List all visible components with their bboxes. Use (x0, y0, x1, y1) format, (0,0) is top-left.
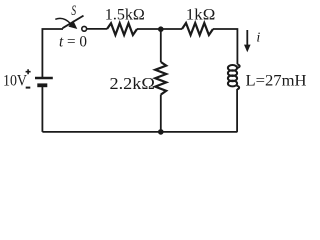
label + polarity (26, 69, 31, 74)
inductor L1 exit curve (237, 86, 240, 90)
inductor L1 loop 4 (228, 81, 237, 87)
label - polarity (26, 87, 31, 89)
switch S arrowhead (68, 20, 77, 29)
wire R1 to node A (137, 28, 161, 30)
battery V1 short plate (-) (37, 83, 47, 87)
node B junction dot (bottom) (158, 129, 164, 135)
current arrow i head (244, 45, 251, 53)
svg-text:2.2kΩ: 2.2kΩ (110, 74, 155, 93)
svg-text:1kΩ: 1kΩ (186, 6, 216, 23)
switch S motion arc (55, 18, 70, 23)
bottom rail wire (42, 131, 237, 133)
node A junction dot (158, 26, 164, 32)
resistor R2 1k zigzag (182, 23, 213, 35)
battery V1 long plate (+) (35, 77, 53, 79)
svg-text:S: S (71, 2, 76, 19)
svg-text:i: i (256, 30, 260, 45)
svg-text:L=27mH: L=27mH (246, 71, 307, 90)
wire R2 to top-right corner and right rail upper (213, 29, 237, 64)
svg-text:10V: 10V (3, 73, 27, 90)
wire right rail lower (236, 89, 238, 132)
wire left rail lower (41, 86, 43, 132)
resistor R1 1.5k zigzag (107, 23, 137, 35)
wire node A to R2 (161, 28, 182, 30)
wire top-left stub and left rail upper (42, 29, 63, 77)
wire contact to R1 (87, 28, 107, 30)
current arrow i shaft (246, 30, 248, 46)
wire node A down to R3 (160, 29, 162, 62)
inductor L1 loop 1 (228, 65, 237, 71)
switch S blade (63, 16, 84, 29)
switch S contact circle (82, 26, 87, 31)
svg-text:t = 0: t = 0 (59, 34, 87, 51)
inductor L1 entry curve (237, 64, 240, 68)
wire R3 to bottom rail (160, 95, 162, 132)
svg-text:1.5kΩ: 1.5kΩ (105, 6, 145, 23)
resistor R3 2.2k vertical zigzag (155, 62, 166, 95)
inductor L1 loop 3 (228, 75, 237, 81)
inductor L1 loop 2 (228, 70, 237, 76)
